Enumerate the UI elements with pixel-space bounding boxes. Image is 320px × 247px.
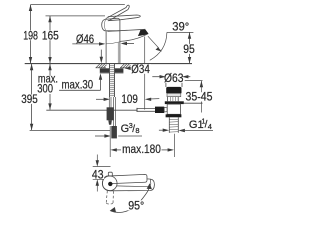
label 198 165 (22, 30, 60, 42)
top view lever blade (111, 174, 148, 183)
arrow Ø63 right (182, 75, 188, 78)
counter line (25, 63, 192, 65)
arrow 198 bottom (29, 57, 32, 63)
ext line lever top (31, 4, 125, 6)
lever tip curl (126, 5, 129, 9)
arrow max300 top (48, 64, 51, 70)
max30 lower arrow and leader (59, 73, 102, 90)
label 43 (91, 170, 104, 179)
aerator vertical line (144, 37, 146, 110)
arrows group 1 (29, 5, 52, 131)
arrow stream end (156, 47, 162, 51)
label 109 (120, 95, 138, 104)
95deg arc (111, 185, 150, 213)
rod level line (46, 109, 137, 111)
nut underline (100, 72, 124, 74)
lever back tab (108, 172, 112, 176)
counter hatch right (121, 64, 125, 68)
arrow 43 top (96, 160, 99, 166)
svg-text:165: 165 (42, 30, 59, 42)
hose A lines (109, 97, 115, 126)
hose B nut (111, 126, 117, 138)
svg-text:43: 43 (92, 170, 104, 182)
svg-text:109: 109 (121, 94, 137, 106)
arrow 395 top (30, 64, 33, 70)
spout bottom edge (120, 34, 148, 42)
arrow max180 left (110, 148, 116, 151)
arrow 95 top (188, 32, 191, 38)
max180 ext right (173, 134, 175, 157)
svg-text:95°: 95° (128, 201, 144, 213)
dim 95 (189, 32, 191, 63)
G114 underline (185, 130, 214, 132)
drain neck (168, 97, 179, 102)
arrow 165 top (48, 16, 51, 22)
G114 arrow right-pointing (163, 129, 169, 132)
dim line 198 (30, 5, 32, 64)
arrow 395 bottom (30, 124, 33, 130)
dashed swing lines (106, 191, 113, 204)
label max300 (37, 76, 59, 94)
drain body box (167, 104, 180, 114)
stream diagonal (148, 36, 159, 48)
G38 leader arrow (104, 134, 110, 137)
svg-text:max.30: max.30 (62, 79, 94, 91)
column right inner line (117, 43, 119, 64)
svg-text:95: 95 (183, 44, 195, 56)
arc arrow left (110, 207, 116, 212)
mounting nut (100, 68, 124, 72)
arrow Ø46 right-pointing (99, 42, 105, 45)
dim line Ø46 (72, 43, 134, 45)
39 degree annotation (145, 32, 194, 109)
body column left (105, 31, 107, 63)
svg-text:300: 300 (37, 84, 53, 96)
column inner line (106, 42, 120, 44)
hose end level line (30, 129, 110, 131)
arrow 3545 bottom (200, 97, 203, 103)
label 39 underline (167, 31, 194, 33)
dim 35-45 (184, 81, 203, 113)
dim line max300 (49, 64, 51, 110)
hose A nut (107, 107, 114, 120)
label 35-45 (185, 92, 214, 101)
arrow 109 left (104, 98, 110, 101)
arrow Ø63 left (160, 75, 166, 78)
arrow 109 right (145, 98, 151, 101)
lever paddle (108, 15, 141, 21)
arrow Ø46 left-pointing (121, 42, 127, 45)
pivot circle (102, 176, 117, 191)
max180 ext left (109, 126, 111, 157)
arc arrow right (147, 183, 152, 189)
arrow max180 right (168, 148, 174, 151)
G114 leader left (159, 129, 165, 131)
dim 109 (96, 98, 159, 101)
threaded shank (109, 64, 114, 97)
arrow 95 bottom (188, 57, 191, 63)
arrow 43 bottom (96, 179, 99, 185)
svg-text:35-45: 35-45 (186, 92, 213, 104)
locknut (166, 114, 182, 117)
dim 43 (93, 155, 111, 192)
body column right (119, 31, 121, 64)
dim line 165 (49, 16, 51, 64)
max180 dim line (115, 149, 171, 151)
slab bottom right (120, 67, 131, 69)
clamp washer bar (165, 101, 184, 104)
dim Ø63 (152, 77, 190, 87)
faucet body group (102, 5, 149, 63)
Ø63 ext lines (165, 83, 167, 87)
arrow 198 top (29, 5, 32, 11)
pivot dot (108, 182, 112, 186)
svg-text:39°: 39° (172, 21, 189, 33)
label 95 (182, 44, 195, 54)
G38 leader (95, 135, 142, 137)
svg-text:395: 395 (21, 94, 38, 106)
drain flange lower (167, 93, 181, 96)
label 395 (20, 95, 39, 104)
arc leader to label (150, 32, 167, 60)
label Ø63 (163, 73, 185, 82)
spout inner edge (117, 179, 151, 186)
svg-text:max.180: max.180 (122, 144, 161, 156)
popup knob (155, 107, 164, 113)
arrow 165 bottom (48, 57, 51, 63)
arrow max300 bottom (48, 103, 51, 109)
tailpipe (169, 117, 178, 133)
svg-text:8: 8 (135, 126, 139, 135)
counter hatch left (96, 64, 131, 68)
lever raised thin bar (106, 7, 127, 18)
label 95deg (127, 200, 145, 210)
spout tip fill (138, 30, 149, 37)
svg-text:4: 4 (208, 122, 212, 131)
rod end cap (136, 108, 138, 112)
arrow 3545 top (200, 81, 203, 87)
svg-text:Ø46: Ø46 (76, 34, 94, 46)
cartridge housing (102, 18, 120, 31)
max30 upper arrow (100, 50, 103, 64)
top view spout outline (103, 176, 155, 191)
popup rod (137, 108, 155, 112)
slab bottom left (96, 67, 107, 69)
label Ø34 (131, 64, 151, 74)
hose B lines (113, 97, 115, 126)
G114 arrow left-pointing (179, 129, 185, 132)
hose A tail (108, 120, 112, 124)
svg-text:198: 198 (23, 30, 38, 42)
svg-text:Ø63: Ø63 (164, 73, 184, 85)
svg-text:Ø34: Ø34 (131, 64, 150, 76)
dim line 395 (31, 64, 33, 130)
arrow Ø34 (124, 67, 130, 70)
housing highlight (103, 20, 106, 30)
ext line 165 level (46, 15, 106, 17)
spout top edge (108, 29, 146, 31)
knob stem (164, 107, 167, 112)
drain flange black (166, 87, 181, 93)
